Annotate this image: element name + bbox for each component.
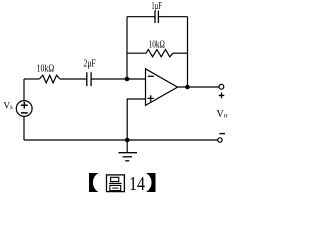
wire: R1 to C1: [60, 78, 87, 80]
wire: C2 to right vertical: [158, 16, 187, 18]
wire: input rail left segment: [24, 78, 39, 80]
svg-text:Vo: Vo: [217, 109, 228, 120]
wire: output: [178, 86, 219, 88]
caption 【圖 14】: [89, 173, 156, 195]
svg-text:10kΩ: 10kΩ: [37, 63, 55, 74]
wire: non-inverting input: [127, 99, 145, 140]
node: output junction: [185, 85, 190, 90]
resistor R2 10kΩ (feedback): [146, 50, 173, 57]
node: inverting input junction: [125, 77, 130, 82]
wire: feedback left vertical: [126, 17, 128, 79]
op-amp U1: [146, 69, 178, 106]
wire: resistor rail right: [173, 52, 188, 54]
wire: top rail to C2: [127, 16, 155, 18]
voltage source Vs: [16, 101, 32, 117]
capacitor C2 1μF: [155, 11, 158, 23]
svg-text:1μF: 1μF: [151, 1, 162, 12]
svg-text:10kΩ: 10kΩ: [149, 39, 165, 50]
wire: resistor rail left: [127, 52, 146, 54]
label + (output polarity): [219, 93, 225, 99]
terminal: output −: [218, 138, 222, 142]
wire: Vs to bottom rail: [23, 116, 25, 140]
capacitor C1 2μF: [87, 72, 91, 86]
resistor R1 10kΩ (input): [39, 75, 60, 83]
ground: [119, 140, 138, 161]
wire: bottom rail: [24, 139, 218, 141]
wire: feedback right vertical: [187, 17, 189, 87]
wire: left branch down to Vs: [23, 79, 25, 101]
svg-text:Vs: Vs: [4, 101, 14, 112]
svg-text:14: 14: [129, 173, 145, 195]
svg-text:2μF: 2μF: [84, 59, 96, 70]
label − (output polarity): [219, 133, 225, 135]
wire: C1 to op-amp inverting input: [91, 78, 145, 80]
node: ground junction: [125, 138, 130, 143]
terminal: output +: [219, 84, 224, 89]
